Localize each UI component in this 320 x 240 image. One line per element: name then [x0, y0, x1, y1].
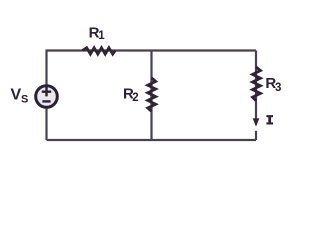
source plus sign — [42, 87, 51, 96]
voltage source VS circle — [36, 86, 58, 108]
label I — [266, 115, 273, 124]
wire right branch — [255, 51, 257, 120]
resistor R2 — [148, 78, 156, 112]
svg-text:V: V — [11, 87, 22, 104]
svg-text:2: 2 — [132, 92, 138, 104]
wire top: left corner to right corner — [47, 49, 257, 51]
svg-text:3: 3 — [275, 82, 281, 94]
wire right below arrow — [255, 131, 257, 140]
wire left: source bottom down to bottom corner — [45, 108, 47, 140]
wire middle branch — [150, 51, 152, 141]
resistor R1 — [83, 48, 116, 54]
source minus sign — [42, 100, 50, 102]
resistor R3 — [253, 67, 261, 101]
wire left: top corner down to source top — [45, 50, 47, 86]
svg-text:1: 1 — [98, 30, 105, 42]
svg-text:S: S — [21, 94, 28, 106]
current arrow I — [253, 118, 260, 126]
wire bottom: left corner to right corner — [47, 139, 257, 141]
